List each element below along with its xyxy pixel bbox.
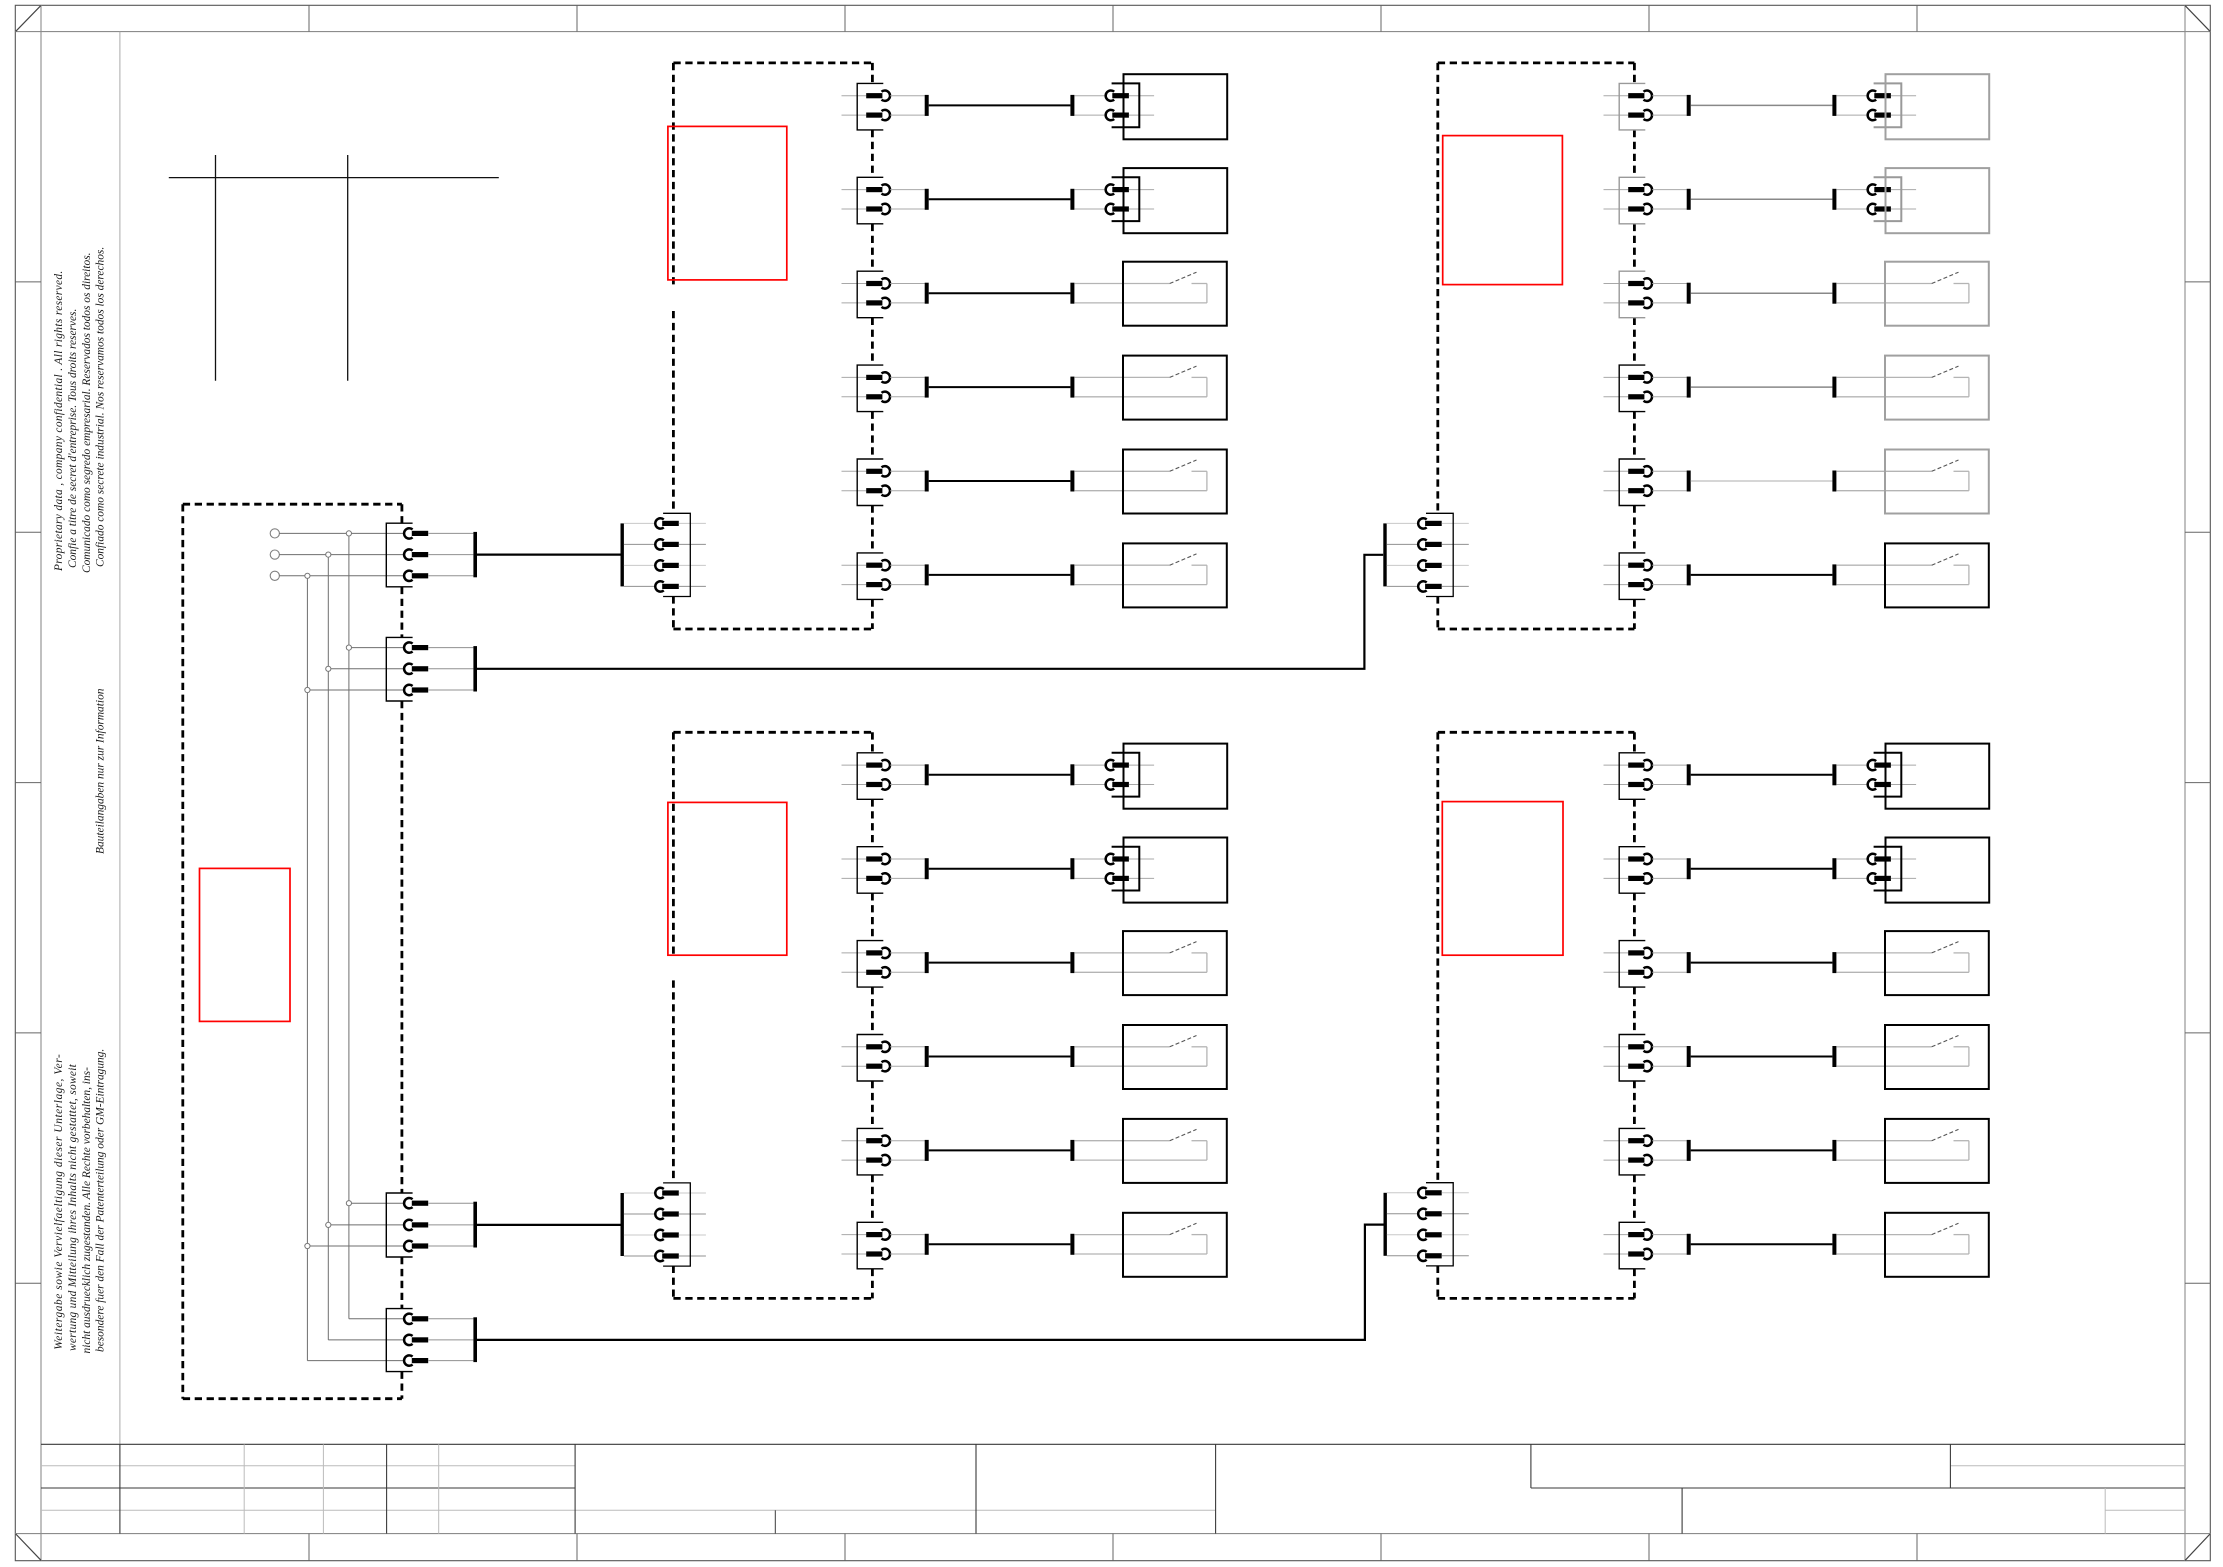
module B row 6 switch box: [1885, 543, 1989, 607]
svg-text:wertung und Mitteilung ihres: wertung und Mitteilung ihres Inhalts nic…: [67, 1063, 79, 1351]
module B row 6 wire: [1691, 574, 1833, 576]
bus wire vertical net3: [306, 576, 308, 1361]
module C row 5 splice bar (left): [925, 1140, 929, 1161]
module D row 1 lamp connector (2-pin): [1836, 753, 1916, 797]
svg-text:nicht ausdruecklich zugestand: nicht ausdruecklich zugestanden. Alle Re…: [81, 1067, 93, 1354]
module B outline (dashed): [1438, 63, 1635, 629]
module D row 2 lamp box: [1886, 838, 1990, 903]
module C row 4 splice bar (left): [925, 1046, 929, 1067]
module B row 4 splice bar (left): [1687, 377, 1691, 398]
module B row 3 connector (2-pin): [1604, 271, 1687, 318]
red annotation box (module B): [1443, 136, 1563, 285]
module A row 4 splice bar (left): [925, 377, 929, 398]
module B row 6 splice bar (right): [1832, 564, 1836, 585]
module B row 3 splice bar (right): [1832, 283, 1836, 304]
module C row 2 connector (2-pin): [842, 847, 925, 894]
module A row 1 lamp connector (2-pin): [1074, 83, 1154, 127]
module D row 5 splice bar (left): [1687, 1140, 1691, 1161]
svg-text:Comunicado como segredo empre: Comunicado como segredo empresarial. Res…: [81, 253, 93, 574]
title block grid: [41, 1444, 2185, 1533]
wire X3 to module C feed: [477, 1224, 621, 1226]
module D row 2 splice bar (left): [1687, 858, 1691, 879]
module D row 1 connector (2-pin): [1604, 753, 1687, 800]
module A row 1 wire: [929, 104, 1071, 106]
module A row 2 connector (2-pin): [842, 177, 925, 224]
module A row 6 splice bar (left): [925, 564, 929, 585]
connector X2 (3-pin): [386, 637, 477, 701]
module A row 6 switch contact: [1074, 554, 1207, 585]
connector X1 (3-pin): [386, 523, 477, 587]
module B row 5 splice bar (right): [1832, 471, 1836, 492]
wire X1 to module A feed: [477, 553, 621, 555]
module D row 3 splice bar (right): [1832, 952, 1836, 973]
red annotation box (module A): [668, 126, 787, 280]
corner diagonal top-right: [2185, 6, 2210, 32]
terminal circles E1-E3: [270, 529, 279, 581]
module C row 1 wire: [929, 774, 1071, 776]
bus wire vertical net1: [348, 533, 350, 1318]
module B row 1 connector (2-pin): [1604, 83, 1687, 129]
module B row 1 wire: [1691, 104, 1833, 106]
module A row 4 connector (2-pin): [842, 365, 925, 412]
module B row 5 switch box: [1885, 450, 1989, 514]
module C row 1 connector (2-pin): [842, 753, 925, 800]
module B row 3 switch contact: [1836, 272, 1969, 303]
module B row 4 wire: [1691, 386, 1833, 388]
module D row 5 splice bar (right): [1832, 1140, 1836, 1161]
module C row 6 wire: [929, 1243, 1071, 1245]
module C row 4 wire: [929, 1056, 1071, 1058]
module B row 1 lamp connector (2-pin): [1836, 83, 1916, 127]
border tick marks top: [309, 5, 1917, 31]
note text Weitergabe DE line3: [81, 1067, 93, 1354]
module D row 1 lamp box: [1886, 744, 1990, 809]
corner diagonal bottom-left: [16, 1534, 41, 1560]
junction dots at X1: [305, 531, 352, 579]
module D row 6 splice bar (right): [1832, 1234, 1836, 1255]
module C row 3 splice bar (left): [925, 952, 929, 973]
border tick marks bottom: [309, 1534, 1917, 1561]
module A row 3 wire: [929, 292, 1071, 294]
module C row 4 splice bar (right): [1070, 1046, 1074, 1067]
module C row 2 wire: [929, 868, 1071, 870]
module A outline (dashed): [673, 63, 872, 629]
wires to connector X2: [307, 648, 404, 690]
svg-text:Bauteilangaben nur zur Informa: Bauteilangaben nur zur Information: [95, 688, 107, 854]
notes column divider: [119, 32, 121, 1445]
module A row 2 splice bar (left): [925, 189, 929, 210]
module C row 6 splice bar (left): [925, 1234, 929, 1255]
bus wire vertical net2: [327, 555, 329, 1340]
wire X2 to module B feed: [477, 555, 1383, 669]
module C row 6 connector (2-pin): [842, 1222, 925, 1269]
module D row 2 lamp connector (2-pin): [1836, 847, 1916, 891]
module A row 3 splice bar (left): [925, 283, 929, 304]
module A row 2 lamp connector (2-pin): [1074, 177, 1154, 221]
module C row 5 splice bar (right): [1070, 1140, 1074, 1161]
harness connector housing J1 (dashed): [183, 504, 402, 1398]
module A row 1 connector (2-pin): [842, 83, 925, 129]
module A row 6 splice bar (right): [1070, 564, 1074, 585]
module A row 5 wire: [929, 480, 1071, 482]
module B row 6 splice bar (left): [1687, 564, 1691, 585]
module B row 2 lamp connector (2-pin): [1836, 177, 1916, 221]
module D row 5 switch box: [1885, 1119, 1989, 1183]
module A row 4 switch contact: [1074, 366, 1207, 397]
note text proprietary PT: [81, 253, 93, 574]
module A row 5 splice bar (right): [1070, 471, 1074, 492]
module D row 4 switch contact: [1836, 1036, 1969, 1067]
connector X3 (3-pin): [386, 1193, 477, 1257]
module C row 5 wire: [929, 1149, 1071, 1151]
module B row 5 wire: [1691, 480, 1833, 482]
module D row 4 splice bar (right): [1832, 1046, 1836, 1067]
module A row 6 switch box: [1123, 543, 1227, 607]
module D row 2 connector (2-pin): [1604, 847, 1687, 894]
module A row 3 connector (2-pin): [842, 271, 925, 318]
module C row 1 splice bar (left): [925, 764, 929, 785]
red annotation box (module D): [1442, 802, 1563, 956]
module D row 6 switch box: [1885, 1213, 1989, 1277]
module D row 2 splice bar (right): [1832, 858, 1836, 879]
module D row 6 splice bar (left): [1687, 1234, 1691, 1255]
module A row 3 splice bar (right): [1070, 283, 1074, 304]
module C row 2 lamp connector (2-pin): [1074, 847, 1154, 891]
note text proprietary ES: [94, 247, 106, 567]
connector X4 (3-pin): [386, 1309, 477, 1372]
module B row 2 splice bar (left): [1687, 189, 1691, 210]
wires to connector X1: [279, 533, 404, 575]
module B row 4 switch contact: [1836, 366, 1969, 397]
module C row 2 lamp box: [1124, 838, 1228, 903]
module A row 1 splice bar (left): [925, 95, 929, 116]
module B row 3 switch box: [1885, 262, 1989, 326]
module A row 2 splice bar (right): [1070, 189, 1074, 210]
module B row 5 splice bar (left): [1687, 471, 1691, 492]
module A row 3 switch box: [1123, 262, 1227, 326]
module B row 3 wire: [1691, 292, 1833, 294]
module B row 2 splice bar (right): [1832, 189, 1836, 210]
module B row 4 connector (2-pin): [1604, 365, 1687, 412]
module A row 6 connector (2-pin): [842, 553, 925, 600]
module B row 5 switch contact: [1836, 460, 1969, 491]
module C feed connector (4-pin): [621, 1183, 706, 1266]
module D row 3 switch box: [1885, 931, 1989, 995]
note text proprietary EN: [53, 270, 65, 572]
module B row 3 splice bar (left): [1687, 283, 1691, 304]
module C row 1 splice bar (right): [1070, 764, 1074, 785]
module C row 4 connector (2-pin): [842, 1035, 925, 1082]
wire X4 to module D feed: [477, 1225, 1384, 1340]
module A row 5 splice bar (left): [925, 471, 929, 492]
module D row 3 wire: [1691, 962, 1833, 964]
module A row 3 switch contact: [1074, 272, 1207, 303]
module C row 5 switch box: [1123, 1119, 1227, 1183]
module B row 4 splice bar (right): [1832, 377, 1836, 398]
alignment mark vertical 2: [347, 155, 349, 381]
svg-text:Weitergabe sowie Vervielfael: Weitergabe sowie Vervielfaeltigung diese…: [53, 1054, 65, 1350]
note text Weitergabe DE line1: [53, 1054, 65, 1350]
module B row 2 connector (2-pin): [1604, 177, 1687, 224]
note text Bauteilangaben: [95, 688, 107, 854]
module C outline (dashed): [673, 732, 872, 1298]
corner diagonal top-left: [16, 6, 41, 32]
module B row 5 connector (2-pin): [1604, 459, 1687, 506]
svg-text:besondere fuer den Fall der Pa: besondere fuer den Fall der Patenterteil…: [94, 1049, 106, 1352]
module B row 1 lamp box: [1886, 74, 1990, 139]
module D row 6 switch contact: [1836, 1223, 1969, 1254]
module C row 6 splice bar (right): [1070, 1234, 1074, 1255]
border tick marks left: [15, 282, 41, 1283]
module C row 5 connector (2-pin): [842, 1128, 925, 1175]
module C row 6 switch box: [1123, 1213, 1227, 1277]
svg-text:Confiado como secrete industri: Confiado como secrete industrial. Nos re…: [94, 247, 106, 567]
alignment mark horizontal: [169, 177, 499, 179]
module C row 3 switch box: [1123, 931, 1227, 995]
module D row 6 connector (2-pin): [1604, 1222, 1687, 1269]
module B row 2 wire: [1691, 198, 1833, 200]
module C row 2 splice bar (right): [1070, 858, 1074, 879]
red annotation box (module C): [668, 802, 787, 955]
note text Weitergabe DE line2: [67, 1063, 79, 1351]
wires to connector X4: [307, 1319, 404, 1361]
module B feed connector (4-pin): [1383, 513, 1469, 596]
module C row 4 switch box: [1123, 1025, 1227, 1089]
module D feed connector (4-pin): [1384, 1183, 1469, 1266]
module C row 5 switch contact: [1074, 1129, 1207, 1160]
svg-text:Proprietary data , company: Proprietary data , company confidential …: [53, 270, 65, 572]
module D row 6 wire: [1691, 1243, 1833, 1245]
border tick marks right: [2185, 282, 2210, 1283]
module B row 1 splice bar (left): [1687, 95, 1691, 116]
module A row 1 splice bar (right): [1070, 95, 1074, 116]
module D row 5 connector (2-pin): [1604, 1128, 1687, 1175]
module C row 3 splice bar (right): [1070, 952, 1074, 973]
module A feed connector (4-pin): [621, 513, 706, 596]
module B row 2 lamp box: [1886, 168, 1990, 233]
module D row 3 splice bar (left): [1687, 952, 1691, 973]
note text proprietary FR: [67, 309, 79, 568]
module A row 5 switch box: [1123, 450, 1227, 514]
module A row 4 splice bar (right): [1070, 377, 1074, 398]
module D row 3 connector (2-pin): [1604, 941, 1687, 988]
module A row 2 lamp box: [1124, 168, 1228, 233]
module C row 3 wire: [929, 962, 1071, 964]
red annotation box (harness): [200, 868, 291, 1021]
module C row 1 lamp connector (2-pin): [1074, 753, 1154, 797]
module A row 4 switch box: [1123, 356, 1227, 420]
alignment mark vertical 1: [215, 155, 217, 381]
svg-text:Confie a titre de secret: Confie a titre de secret d'entreprise. T…: [67, 309, 79, 568]
module D row 4 splice bar (left): [1687, 1046, 1691, 1067]
module D row 4 wire: [1691, 1056, 1833, 1058]
note text Weitergabe DE line4: [94, 1049, 106, 1352]
corner diagonal bottom-right: [2185, 1534, 2210, 1560]
junction dots at X3: [305, 1201, 352, 1249]
module D outline (dashed): [1438, 732, 1635, 1298]
module A row 6 wire: [929, 574, 1071, 576]
module D row 1 wire: [1691, 774, 1833, 776]
module D row 3 switch contact: [1836, 942, 1969, 973]
module C row 4 switch contact: [1074, 1036, 1207, 1067]
module C row 2 splice bar (left): [925, 858, 929, 879]
module D row 4 switch box: [1885, 1025, 1989, 1089]
module B row 4 switch box: [1885, 356, 1989, 420]
module A row 2 wire: [929, 198, 1071, 200]
module D row 1 splice bar (left): [1687, 764, 1691, 785]
wires to connector X3: [307, 1203, 404, 1246]
module D row 2 wire: [1691, 868, 1833, 870]
module C row 6 switch contact: [1074, 1223, 1207, 1254]
module D row 5 wire: [1691, 1149, 1833, 1151]
module A row 1 lamp box: [1124, 74, 1228, 139]
module D row 5 switch contact: [1836, 1129, 1969, 1160]
module D row 1 splice bar (right): [1832, 764, 1836, 785]
module B row 1 splice bar (right): [1832, 95, 1836, 116]
module B row 6 switch contact: [1836, 554, 1969, 585]
junction dots at X2: [305, 645, 352, 693]
module A row 5 switch contact: [1074, 460, 1207, 491]
module A row 4 wire: [929, 386, 1071, 388]
module C row 3 switch contact: [1074, 942, 1207, 973]
module D row 4 connector (2-pin): [1604, 1035, 1687, 1082]
module C row 1 lamp box: [1124, 744, 1228, 809]
module A row 5 connector (2-pin): [842, 459, 925, 506]
module C row 3 connector (2-pin): [842, 941, 925, 988]
module B row 6 connector (2-pin): [1604, 553, 1687, 600]
